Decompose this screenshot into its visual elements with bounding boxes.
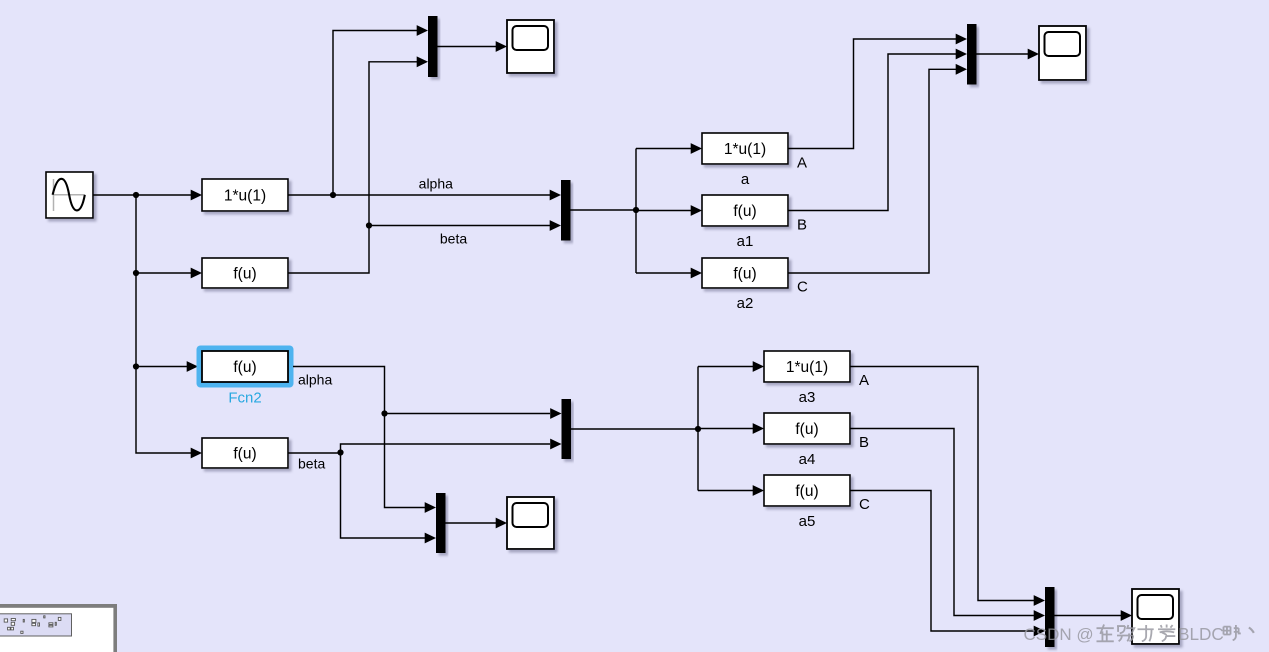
svg-text:f(u): f(u) [733, 265, 756, 282]
wire sine to Fcn 1*u(1) [93, 194, 192, 196]
block a3 1*u(1) [764, 351, 850, 382]
svg-text:f(u): f(u) [233, 359, 256, 376]
block Fcn f(u) [202, 258, 288, 288]
wire C2 to Mux4 [850, 491, 1034, 632]
svg-text:C: C [797, 279, 808, 296]
svg-text:a3: a3 [799, 389, 816, 406]
block a4 f(u) [764, 413, 850, 444]
wire alpha branch up to Mux0 [333, 31, 417, 196]
block a1 f(u) [702, 195, 788, 226]
block a5 f(u) [764, 475, 850, 506]
svg-text:1*u(1): 1*u(1) [224, 187, 266, 204]
wire B to Mux5 [788, 54, 956, 211]
block Fcn 1*u(1) [202, 179, 288, 211]
svg-text:Fcn2: Fcn2 [228, 390, 261, 407]
scope Scope4 top-right [1039, 26, 1086, 80]
wire left vertical trunk [136, 195, 192, 453]
wire A2 to Mux4 [850, 367, 1034, 601]
wire alpha2 branch to Mux3 [385, 414, 426, 508]
node junction beta2 [337, 449, 343, 455]
wire Mux0 to Scope1 [438, 46, 497, 48]
wire beta branch up to Mux0 [369, 62, 417, 226]
svg-text:CSDN @: CSDN @ [1024, 625, 1094, 644]
svg-text:B: B [797, 217, 807, 234]
wire Mux5 to Scope4 [977, 53, 1029, 55]
selection highlight of Fcn2 [197, 346, 294, 388]
svg-text:f(u): f(u) [233, 265, 256, 282]
source block Sine Wave [46, 172, 93, 218]
wire beta from f(u) to Mux1 [288, 226, 550, 274]
wire Mux1 to blocks a a1 a2 [571, 209, 637, 211]
wire C to Mux5 [788, 69, 956, 273]
svg-text:a1: a1 [737, 233, 754, 250]
mux Mux0 top-left [428, 16, 438, 77]
scope Scope2 [507, 497, 554, 549]
node junction on sine output [133, 192, 139, 198]
svg-text:A: A [859, 372, 869, 389]
node junction alpha2 [381, 410, 387, 416]
panel bottom-left preview pane [0, 604, 117, 652]
mux Mux2 [562, 399, 572, 459]
wire B2 to Mux4 [850, 429, 1034, 616]
block Fcn2 f(u) selected [202, 351, 288, 382]
wire alpha2 from Fcn2 to Mux2 [293, 367, 550, 414]
wire branch to Fcn2 [136, 366, 188, 368]
block a2 f(u) [702, 258, 788, 288]
svg-text:f(u): f(u) [795, 421, 818, 438]
node junction on alpha wire [330, 192, 336, 198]
svg-text:beta: beta [298, 456, 325, 472]
svg-text:f(u): f(u) [795, 483, 818, 500]
svg-text:a4: a4 [799, 451, 816, 468]
scope Scope1 top-left [507, 20, 554, 73]
svg-text:f(u): f(u) [733, 203, 756, 220]
scope Scope3 bottom-right [1132, 589, 1179, 644]
svg-text:a2: a2 [737, 295, 754, 312]
wire A to Mux5 [788, 39, 956, 149]
block Fcn beta f(u) [202, 438, 288, 468]
svg-text:1*u(1): 1*u(1) [724, 141, 766, 158]
svg-text:beta: beta [440, 231, 467, 247]
minimap tiny blocks [4, 616, 61, 634]
svg-text:alpha: alpha [298, 372, 332, 388]
node junction at f(u) branch [133, 270, 139, 276]
wire beta2 from f(u) to Mux2 [288, 444, 550, 453]
wire alpha from 1*u(1) to Mux1 [288, 194, 550, 196]
svg-text:1*u(1): 1*u(1) [786, 359, 828, 376]
mux Mux5 top-right [967, 24, 977, 85]
svg-text:BLDC: BLDC [1178, 624, 1224, 644]
svg-text:a: a [741, 171, 750, 188]
svg-text:B: B [859, 434, 869, 451]
svg-text:C: C [859, 496, 870, 513]
mux Mux4 bottom-right [1045, 587, 1055, 647]
watermark CSDN [1024, 624, 1254, 644]
wire branch to f(u) Fcn [136, 272, 192, 274]
wire Mux2 to blocks a3 a4 a5 [571, 428, 698, 430]
svg-text:f(u): f(u) [233, 445, 256, 462]
wire Mux3 to Scope2 [446, 522, 497, 524]
mux Mux3 [436, 493, 446, 553]
svg-text:alpha: alpha [419, 176, 453, 192]
svg-text:A: A [797, 155, 807, 172]
node junction on beta wire [366, 222, 372, 228]
svg-text:a5: a5 [799, 513, 816, 530]
node junction at Fcn2 branch [133, 363, 139, 369]
mux Mux1 alpha-beta [561, 180, 571, 241]
wire Mux4 to Scope3 [1055, 615, 1122, 617]
wire beta2 branch to Mux3 [341, 453, 426, 539]
block a 1*u(1) [702, 133, 788, 164]
